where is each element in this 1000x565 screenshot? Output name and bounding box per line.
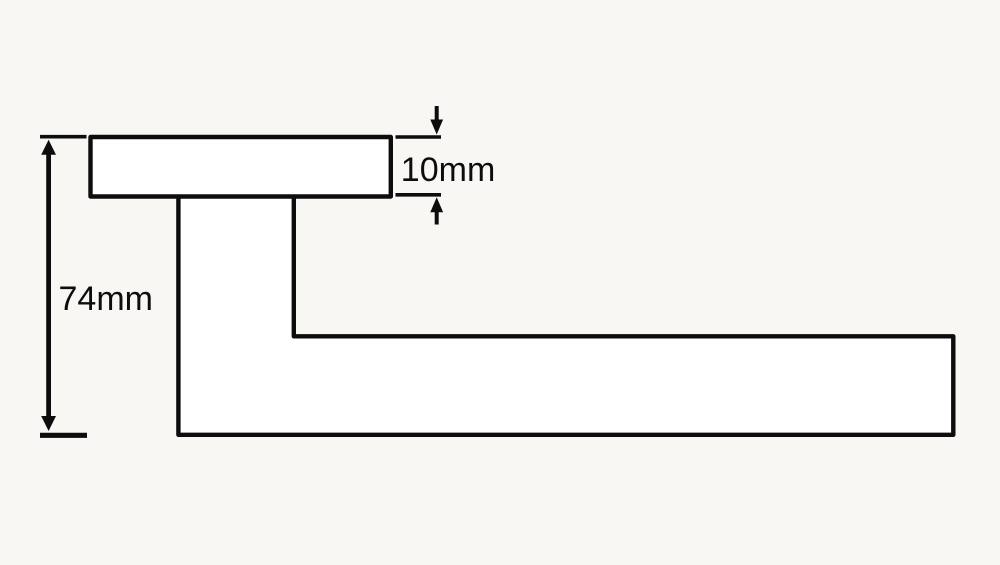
- dimension 10mm: lower arrow (pointing up): [435, 211, 439, 225]
- dimension 74mm: top arrowhead: [41, 140, 56, 155]
- rose plate rectangle: [91, 137, 391, 197]
- svg-text:74mm: 74mm: [59, 280, 153, 318]
- dimension 10mm: bottom extension line: [396, 193, 442, 197]
- dimension 74mm: vertical line: [46, 152, 51, 419]
- dimension 74mm: bottom tick: [40, 433, 87, 438]
- dimension 10mm: upper arrow (pointing down): [435, 106, 439, 121]
- svg-text:10mm: 10mm: [401, 151, 495, 189]
- dimension 74mm: bottom arrowhead: [41, 416, 56, 431]
- dimension 74mm: top tick: [40, 135, 87, 139]
- lever L-shape (handle grip + neck): [178, 196, 953, 435]
- dimension 10mm: top extension line: [396, 135, 442, 139]
